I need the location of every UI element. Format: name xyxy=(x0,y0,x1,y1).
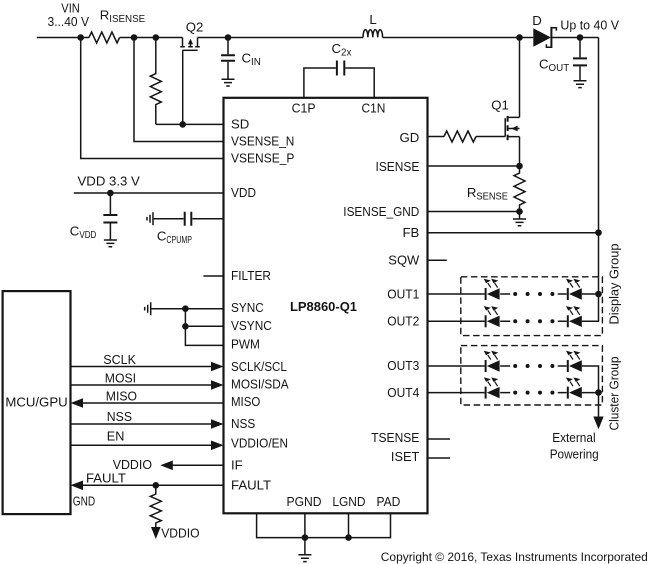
wire TSENSE stub xyxy=(428,438,451,440)
svg-text:RSENSE: RSENSE xyxy=(467,185,508,203)
wire SQW stub xyxy=(428,259,447,261)
LED D4b xyxy=(566,377,582,398)
wire VIN boost rail xyxy=(37,38,599,295)
svg-text:VSYNC: VSYNC xyxy=(231,318,272,333)
wire FILTER stub xyxy=(203,275,223,277)
wire FAULT xyxy=(71,471,224,490)
wire NSS xyxy=(71,409,224,429)
svg-text:C2x: C2x xyxy=(332,41,352,59)
svg-text:Display Group: Display Group xyxy=(607,244,622,325)
svg-text:External: External xyxy=(552,430,595,445)
svg-text:VSENSE_P: VSENSE_P xyxy=(231,150,295,165)
svg-text:FAULT: FAULT xyxy=(231,477,271,492)
svg-text:VDD 3.3 V: VDD 3.3 V xyxy=(78,174,141,189)
resistor RSENSE xyxy=(467,166,525,212)
svg-text:VDDIO: VDDIO xyxy=(161,525,199,540)
svg-text:Q1: Q1 xyxy=(491,98,509,113)
junction VSENSE_N tap xyxy=(131,34,138,41)
resistor Q2 gate pull-up xyxy=(150,38,161,125)
wire EN xyxy=(71,429,224,451)
svg-text:Up to 40 V: Up to 40 V xyxy=(560,17,619,32)
svg-text:LGND: LGND xyxy=(332,494,365,509)
capacitor COUT xyxy=(539,38,587,88)
svg-text:RISENSE: RISENSE xyxy=(100,8,146,26)
wire VSENSE_P sense line xyxy=(81,38,224,159)
svg-text:Q2: Q2 xyxy=(186,20,204,35)
wire OUT3 LED string xyxy=(428,366,599,393)
wire ISENSE_GND xyxy=(428,211,520,213)
svg-text:OUT4: OUT4 xyxy=(387,385,419,400)
capacitor C2x xyxy=(332,41,352,76)
wire PWM xyxy=(185,309,223,346)
svg-text:SCLK/SCL: SCLK/SCL xyxy=(231,359,287,374)
LED D2b xyxy=(566,306,582,327)
svg-text:L: L xyxy=(369,12,376,27)
transistor Q1 xyxy=(491,38,519,167)
svg-text:CCPUMP: CCPUMP xyxy=(157,229,192,247)
svg-text:OUT1: OUT1 xyxy=(387,287,419,302)
junction CIN tap xyxy=(225,34,232,41)
svg-text:VDDIO/EN: VDDIO/EN xyxy=(231,435,288,450)
svg-text:MOSI/SDA: MOSI/SDA xyxy=(231,376,289,391)
svg-text:MISO: MISO xyxy=(231,394,260,409)
LED D4a xyxy=(484,377,500,398)
svg-text:C1P: C1P xyxy=(292,101,316,116)
transistor Q2 xyxy=(180,20,203,125)
wire SD line xyxy=(156,123,224,125)
junction OUT4 string anode xyxy=(595,389,602,396)
svg-text:3...40 V: 3...40 V xyxy=(48,14,90,29)
MCU/GPU block xyxy=(3,291,71,514)
svg-text:ISENSE_GND: ISENSE_GND xyxy=(343,204,419,219)
wire MOSI xyxy=(71,371,224,390)
svg-text:PWM: PWM xyxy=(231,337,260,352)
wire ISET stub xyxy=(428,457,451,459)
wire OUT2 LED string xyxy=(428,294,599,321)
svg-text:OUT3: OUT3 xyxy=(387,358,419,373)
junction Q1 drain / diode anode xyxy=(516,34,523,41)
svg-text:Powering: Powering xyxy=(550,447,599,462)
node series dots OUT2 xyxy=(513,319,554,323)
wire VSYNC xyxy=(185,325,223,327)
svg-text:CVDD: CVDD xyxy=(70,224,97,242)
wire OUT4 LED string xyxy=(428,392,599,394)
LED D1b xyxy=(566,279,582,300)
wire VDD supply xyxy=(74,192,224,194)
capacitor CVDD xyxy=(70,193,118,247)
svg-text:COUT: COUT xyxy=(539,57,569,75)
wire C1N stub xyxy=(345,68,374,98)
svg-text:LP8860-Q1: LP8860-Q1 xyxy=(290,299,357,314)
wire OUT1 LED string xyxy=(428,293,599,295)
wire VSENSE_N sense line xyxy=(134,38,224,142)
svg-text:ISENSE: ISENSE xyxy=(376,159,420,174)
node series dots OUT3 xyxy=(513,364,554,368)
node VIN xyxy=(48,1,90,29)
svg-text:C1N: C1N xyxy=(361,101,385,116)
LED D1a xyxy=(484,279,500,300)
display group dashed box xyxy=(461,277,603,336)
wire IF to VDDIO xyxy=(113,457,224,472)
svg-text:NSS: NSS xyxy=(231,416,255,431)
junction FB / boost output xyxy=(595,229,602,236)
junction Q2 pull-up tap xyxy=(153,34,160,41)
junction FAULT pull-up tap xyxy=(153,482,160,489)
svg-text:Copyright © 2016, Texas Instru: Copyright © 2016, Texas Instruments Inco… xyxy=(381,550,648,564)
svg-text:VSENSE_N: VSENSE_N xyxy=(231,133,294,148)
junction VSYNC tie xyxy=(182,323,189,330)
junction VDD / CVDD xyxy=(107,190,114,197)
wire MISO xyxy=(71,389,224,408)
resistor FAULT pull-up xyxy=(150,485,161,527)
capacitor CCPUMP xyxy=(147,212,224,246)
svg-text:MISO: MISO xyxy=(106,389,137,404)
capacitor CIN xyxy=(221,38,261,87)
svg-text:FB: FB xyxy=(402,225,419,240)
svg-text:FILTER: FILTER xyxy=(231,268,271,283)
svg-text:VDD: VDD xyxy=(231,185,256,200)
node External Powering label xyxy=(550,430,599,462)
LED D2a xyxy=(484,306,500,327)
resistor RISENSE xyxy=(89,8,146,44)
svg-text:TSENSE: TSENSE xyxy=(371,430,419,445)
svg-text:FAULT: FAULT xyxy=(86,471,126,486)
wire GD gate drive xyxy=(428,136,506,138)
wire FB feedback xyxy=(428,232,599,234)
svg-text:VDDIO: VDDIO xyxy=(113,457,152,472)
svg-text:Cluster Group: Cluster Group xyxy=(607,357,622,431)
svg-text:MOSI: MOSI xyxy=(105,371,136,386)
wire C1P stub xyxy=(304,68,336,98)
svg-text:EN: EN xyxy=(107,429,125,444)
junction VIN / VSENSE_P tap xyxy=(77,34,84,41)
node VDDIO arrow xyxy=(151,525,200,540)
ground SYNC tie xyxy=(145,302,151,315)
resistor Q1 gate series xyxy=(444,131,476,142)
wire SCLK xyxy=(71,352,224,371)
wire external powering feed xyxy=(598,393,600,418)
inductor L xyxy=(363,12,383,37)
node series dots OUT4 xyxy=(513,391,554,395)
svg-text:GD: GD xyxy=(400,130,420,145)
svg-text:MCU/GPU: MCU/GPU xyxy=(5,395,67,410)
wire SYNC xyxy=(151,308,224,310)
svg-text:SQW: SQW xyxy=(388,252,420,267)
svg-text:GND: GND xyxy=(73,494,95,509)
node series dots OUT1 xyxy=(513,292,554,296)
svg-text:PGND: PGND xyxy=(287,494,322,509)
junction COUT tap xyxy=(577,34,584,41)
svg-text:SD: SD xyxy=(231,116,249,131)
svg-text:OUT2: OUT2 xyxy=(387,314,419,329)
LED D3b xyxy=(566,351,582,372)
svg-text:SCLK: SCLK xyxy=(103,352,136,367)
svg-text:NSS: NSS xyxy=(107,409,132,424)
svg-text:SYNC: SYNC xyxy=(231,300,264,315)
cluster group dashed box xyxy=(461,346,603,405)
IC U1 LP8860-Q1 xyxy=(224,98,428,514)
wire ground bus bottom xyxy=(257,513,391,537)
ground below RSENSE xyxy=(519,212,521,220)
junction SYNC tie xyxy=(182,305,189,312)
wire ISENSE xyxy=(428,165,520,167)
junction Q2 gate / SD xyxy=(179,121,186,128)
junction LGND bus xyxy=(345,534,352,541)
svg-text:CIN: CIN xyxy=(242,51,261,69)
ground main xyxy=(304,538,306,555)
junction PGND bus xyxy=(302,534,309,541)
svg-text:PAD: PAD xyxy=(376,494,400,509)
junction ISENSE_GND node xyxy=(516,208,523,215)
svg-text:D: D xyxy=(532,13,542,28)
junction OUT1 string anode xyxy=(595,291,602,298)
svg-text:ISET: ISET xyxy=(391,449,419,464)
diode D (Schottky) xyxy=(532,13,556,48)
LED D3a xyxy=(484,351,500,372)
junction ISENSE node xyxy=(516,163,523,170)
svg-text:IF: IF xyxy=(231,457,243,472)
